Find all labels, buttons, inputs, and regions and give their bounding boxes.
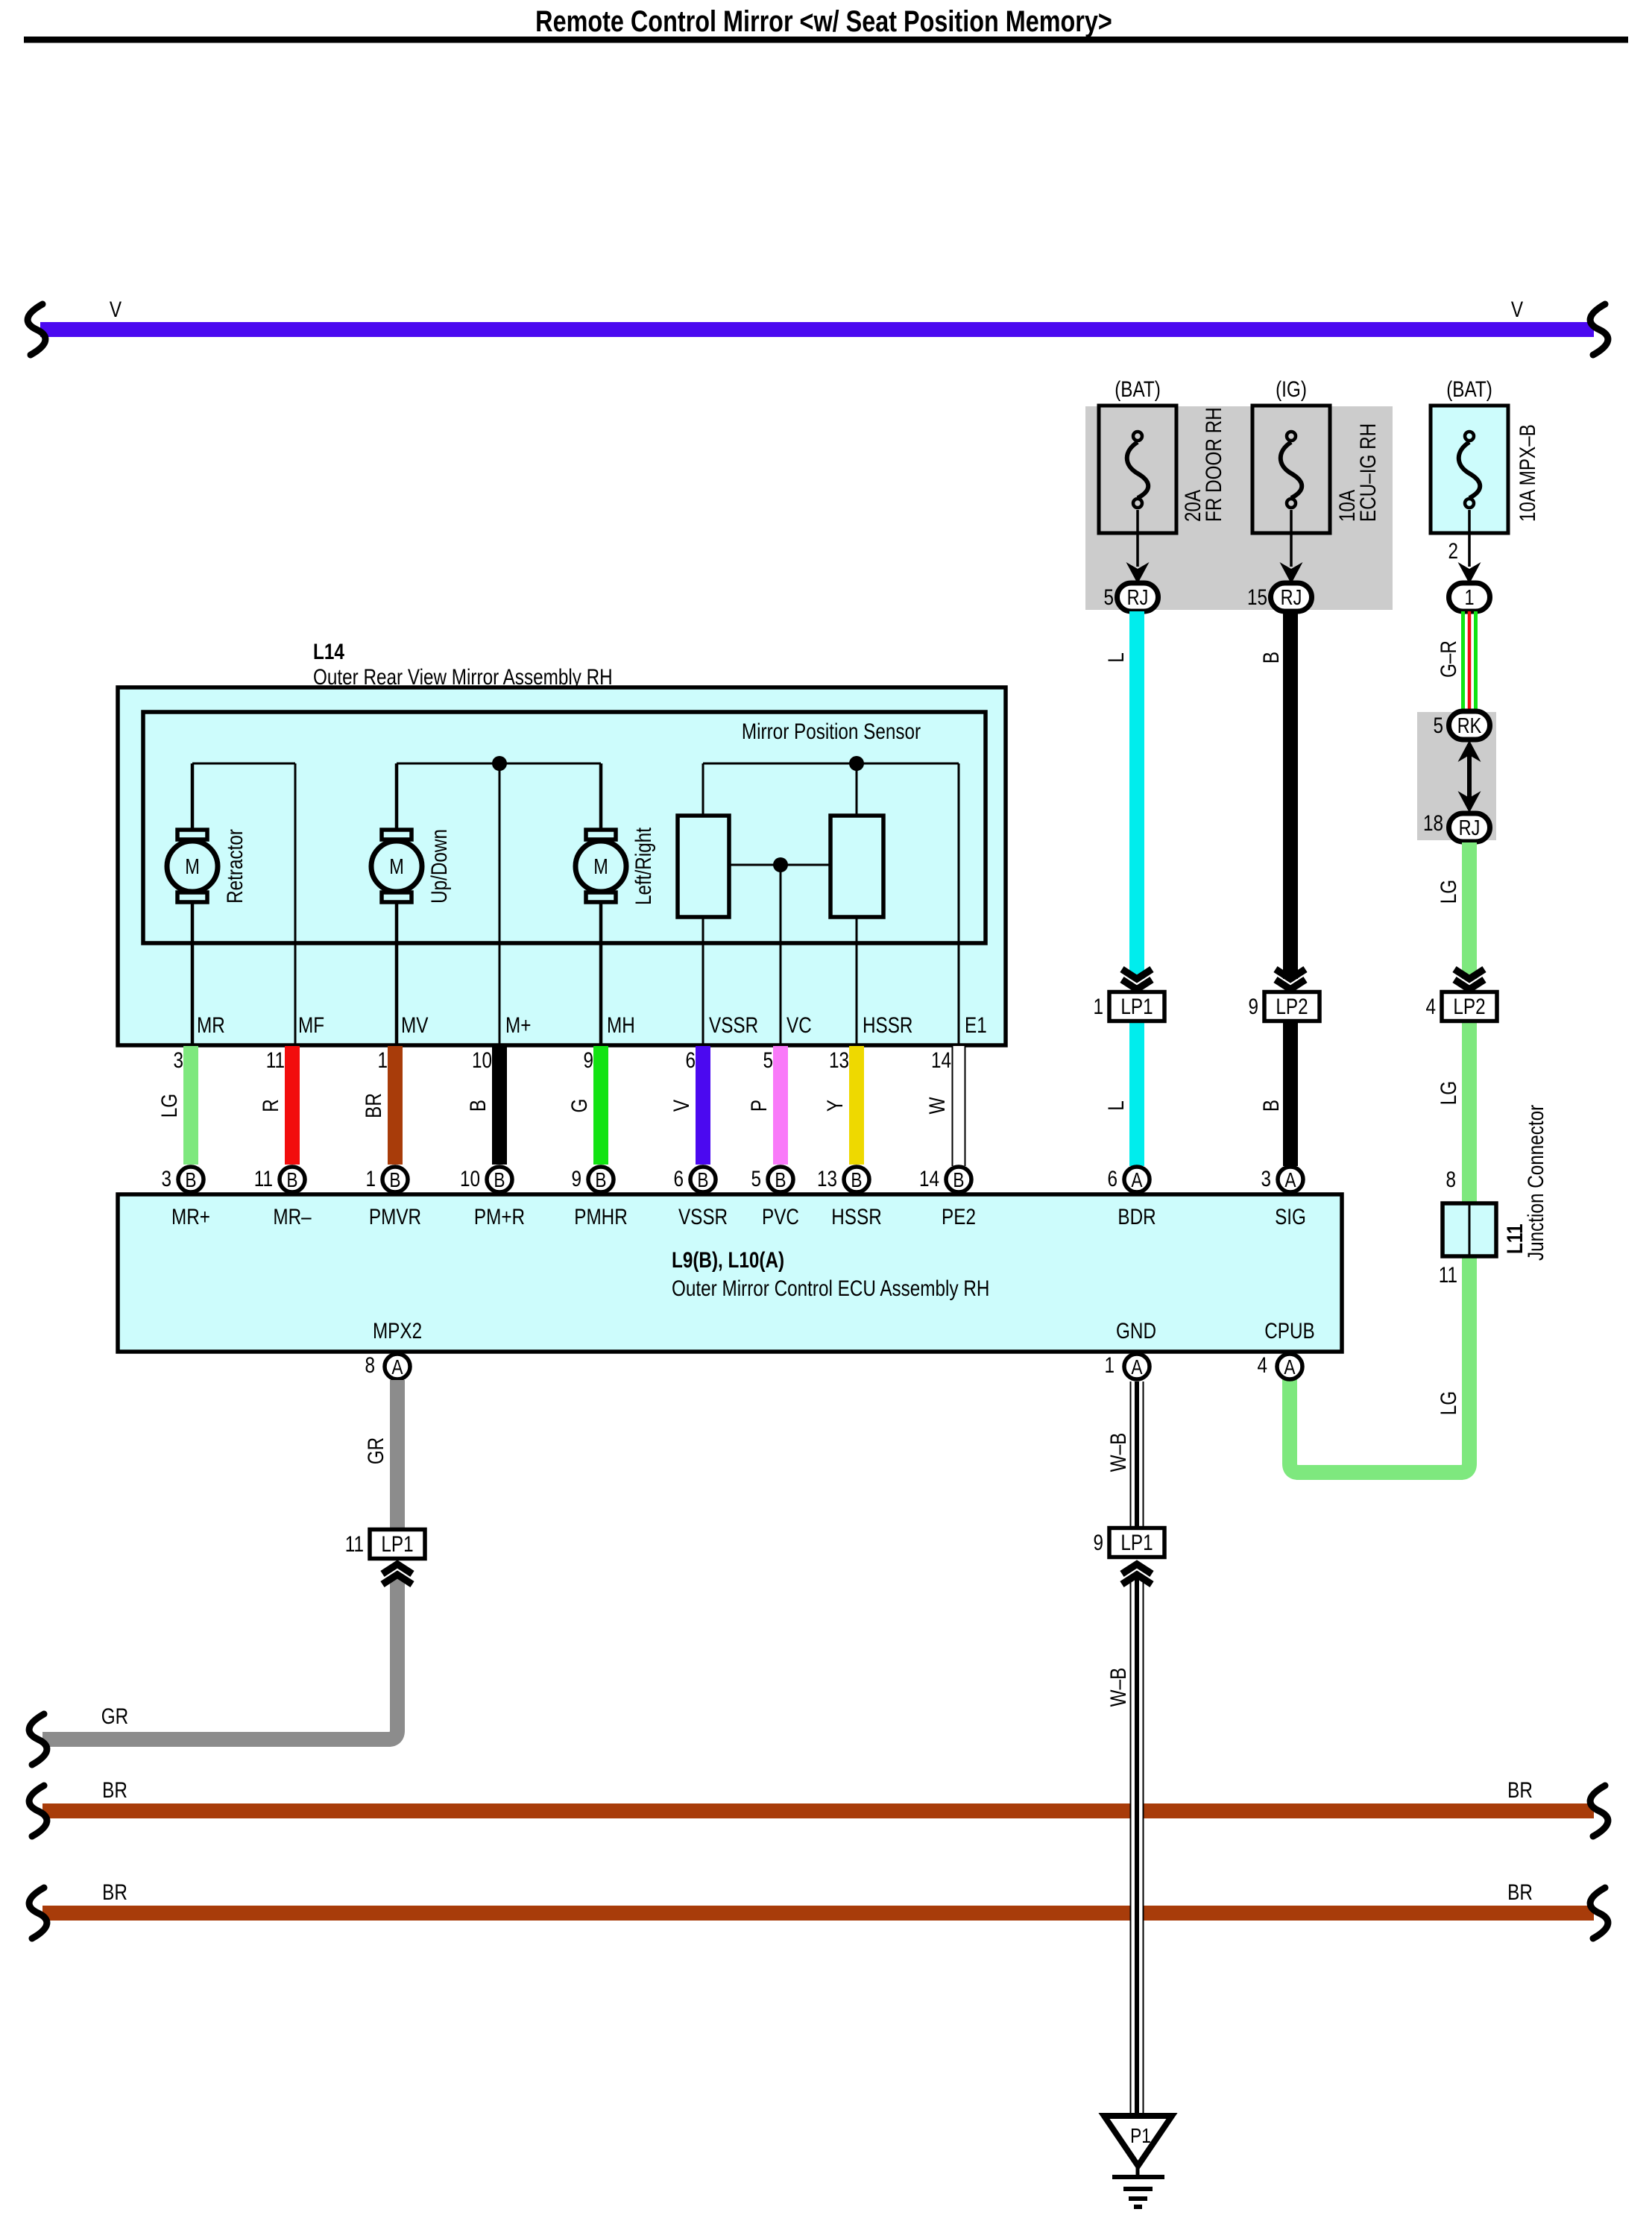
svg-text:MR: MR: [197, 1012, 225, 1038]
svg-text:14: 14: [931, 1047, 951, 1073]
svg-text:RK: RK: [1457, 713, 1482, 738]
svg-text:(BAT): (BAT): [1446, 377, 1492, 402]
svg-text:8: 8: [365, 1352, 375, 1378]
svg-text:9: 9: [1248, 994, 1258, 1019]
svg-text:FR DOOR RH: FR DOOR RH: [1201, 407, 1226, 522]
svg-text:Up/Down: Up/Down: [426, 829, 452, 904]
svg-text:B: B: [494, 1169, 505, 1192]
svg-text:RJ: RJ: [1281, 585, 1302, 610]
svg-text:RJ: RJ: [1127, 585, 1149, 610]
svg-text:5: 5: [1433, 713, 1443, 738]
svg-text:VSSR: VSSR: [678, 1204, 728, 1229]
svg-text:LP1: LP1: [1120, 1530, 1153, 1555]
svg-text:6: 6: [673, 1166, 684, 1191]
svg-text:HSSR: HSSR: [863, 1012, 912, 1038]
svg-text:GR: GR: [101, 1704, 128, 1729]
svg-text:PM+R: PM+R: [474, 1204, 525, 1229]
svg-text:3: 3: [161, 1166, 171, 1191]
svg-text:W: W: [924, 1097, 950, 1114]
svg-text:LP1: LP1: [381, 1531, 413, 1557]
svg-text:1: 1: [1093, 994, 1103, 1019]
svg-text:6: 6: [1107, 1166, 1117, 1191]
svg-text:VSSR: VSSR: [709, 1012, 758, 1038]
svg-text:L: L: [1103, 652, 1129, 663]
svg-text:4: 4: [1425, 994, 1436, 1019]
svg-text:M: M: [185, 854, 200, 879]
svg-text:B: B: [1258, 1100, 1284, 1112]
svg-text:A: A: [1131, 1356, 1142, 1379]
svg-text:PMVR: PMVR: [369, 1204, 421, 1229]
svg-text:4: 4: [1257, 1352, 1267, 1378]
svg-text:PE2: PE2: [942, 1204, 976, 1229]
svg-text:B: B: [697, 1169, 708, 1192]
svg-text:10: 10: [460, 1166, 480, 1191]
svg-text:Left/Right: Left/Right: [631, 828, 656, 905]
svg-text:P1: P1: [1130, 2125, 1151, 2148]
svg-text:V: V: [1511, 297, 1524, 322]
svg-text:M+: M+: [505, 1012, 531, 1038]
svg-text:LG: LG: [1436, 1391, 1461, 1415]
svg-text:PVC: PVC: [762, 1204, 799, 1229]
svg-text:Outer Mirror Control ECU Assem: Outer Mirror Control ECU Assembly RH: [672, 1276, 989, 1301]
svg-text:B: B: [953, 1169, 964, 1192]
svg-text:8: 8: [1445, 1167, 1456, 1192]
svg-text:1: 1: [365, 1166, 376, 1191]
svg-text:B: B: [389, 1169, 400, 1192]
svg-text:BR: BR: [102, 1777, 127, 1803]
svg-text:5: 5: [751, 1166, 761, 1191]
svg-text:A: A: [1284, 1169, 1296, 1192]
svg-text:LG: LG: [1436, 1081, 1461, 1105]
svg-text:P: P: [746, 1100, 772, 1112]
svg-text:B: B: [286, 1169, 297, 1192]
svg-text:10: 10: [472, 1047, 492, 1073]
svg-text:MR–: MR–: [273, 1204, 312, 1229]
svg-text:5: 5: [1103, 585, 1114, 610]
svg-text:9: 9: [583, 1047, 593, 1073]
svg-text:MH: MH: [607, 1012, 635, 1038]
svg-text:BR: BR: [102, 1880, 127, 1905]
svg-text:ECU–IG RH: ECU–IG RH: [1355, 423, 1381, 522]
svg-text:B: B: [595, 1169, 606, 1192]
svg-text:M: M: [593, 854, 608, 879]
svg-text:L: L: [1103, 1100, 1129, 1111]
svg-text:BR: BR: [1507, 1880, 1533, 1905]
svg-text:R: R: [258, 1099, 283, 1112]
svg-text:B: B: [775, 1169, 786, 1192]
svg-text:Y: Y: [822, 1100, 848, 1112]
svg-text:15: 15: [1247, 585, 1267, 610]
svg-text:LP1: LP1: [1120, 994, 1153, 1019]
svg-text:1: 1: [1464, 585, 1474, 610]
svg-text:A: A: [391, 1356, 403, 1379]
svg-text:HSSR: HSSR: [831, 1204, 881, 1229]
svg-text:1: 1: [377, 1047, 388, 1073]
svg-text:V: V: [669, 1099, 694, 1112]
svg-text:LP2: LP2: [1453, 994, 1485, 1019]
svg-text:GND: GND: [1116, 1318, 1156, 1343]
svg-text:13: 13: [817, 1166, 837, 1191]
svg-text:2: 2: [1448, 538, 1458, 564]
svg-text:LG: LG: [157, 1094, 182, 1118]
svg-text:SIG: SIG: [1275, 1204, 1306, 1229]
svg-text:B: B: [185, 1169, 196, 1192]
svg-text:Junction Connector: Junction Connector: [1523, 1105, 1548, 1261]
svg-text:11: 11: [1439, 1262, 1457, 1288]
svg-text:11: 11: [266, 1047, 285, 1073]
svg-text:9: 9: [571, 1166, 581, 1191]
svg-text:6: 6: [685, 1047, 696, 1073]
svg-text:L14: L14: [313, 639, 345, 664]
svg-text:M: M: [389, 854, 404, 879]
svg-text:RJ: RJ: [1459, 816, 1481, 840]
svg-text:13: 13: [829, 1047, 849, 1073]
svg-text:MR+: MR+: [171, 1204, 210, 1229]
svg-text:(BAT): (BAT): [1115, 377, 1161, 402]
svg-text:Retractor: Retractor: [222, 829, 248, 904]
svg-text:1: 1: [1104, 1352, 1115, 1378]
svg-text:CPUB: CPUB: [1264, 1318, 1314, 1343]
svg-text:Remote Control Mirror <w/ Seat: Remote Control Mirror <w/ Seat Position …: [535, 4, 1112, 38]
svg-text:18: 18: [1423, 810, 1443, 836]
svg-text:3: 3: [1261, 1166, 1271, 1191]
svg-text:GR: GR: [363, 1437, 388, 1464]
svg-text:W–B: W–B: [1106, 1668, 1131, 1707]
svg-text:Mirror Position Sensor: Mirror Position Sensor: [742, 719, 921, 744]
svg-text:V: V: [110, 297, 122, 322]
svg-text:5: 5: [763, 1047, 773, 1073]
svg-text:3: 3: [173, 1047, 183, 1073]
svg-text:MPX2: MPX2: [373, 1318, 422, 1343]
svg-text:B: B: [851, 1169, 862, 1192]
svg-text:14: 14: [919, 1166, 939, 1191]
svg-text:W–B: W–B: [1106, 1433, 1131, 1472]
svg-text:10A MPX–B: 10A MPX–B: [1515, 424, 1540, 522]
svg-text:G: G: [567, 1099, 592, 1113]
svg-text:A: A: [1131, 1169, 1142, 1192]
svg-text:PMHR: PMHR: [574, 1204, 628, 1229]
svg-text:A: A: [1284, 1356, 1295, 1379]
svg-text:BDR: BDR: [1117, 1204, 1156, 1229]
svg-text:BR: BR: [361, 1093, 386, 1118]
svg-text:B: B: [1258, 652, 1284, 664]
svg-text:11: 11: [254, 1166, 273, 1191]
svg-text:LG: LG: [1436, 880, 1461, 904]
svg-text:VC: VC: [786, 1012, 812, 1038]
svg-text:L9(B), L10(A): L9(B), L10(A): [672, 1247, 784, 1273]
svg-text:BR: BR: [1507, 1777, 1533, 1803]
svg-text:G–R: G–R: [1436, 640, 1461, 678]
svg-text:MF: MF: [298, 1012, 324, 1038]
svg-text:(IG): (IG): [1276, 377, 1307, 402]
svg-text:E1: E1: [965, 1012, 987, 1038]
svg-text:MV: MV: [401, 1012, 429, 1038]
svg-text:11: 11: [345, 1531, 364, 1557]
svg-text:B: B: [465, 1100, 491, 1112]
svg-text:LP2: LP2: [1276, 994, 1308, 1019]
svg-text:9: 9: [1093, 1530, 1103, 1555]
